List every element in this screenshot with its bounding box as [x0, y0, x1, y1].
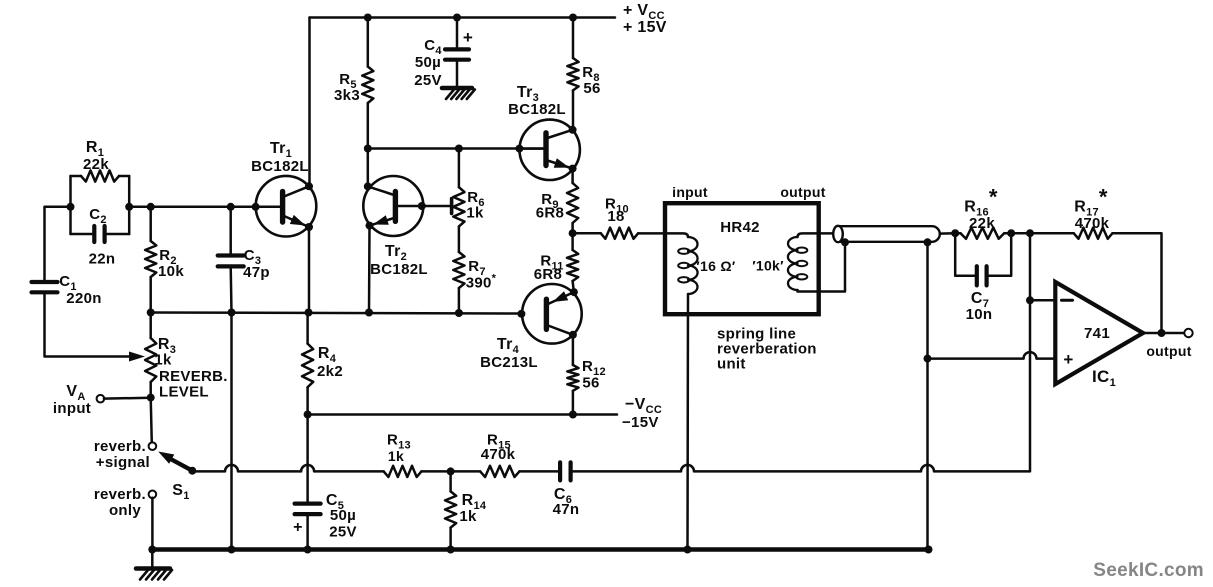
resistor R9	[567, 183, 578, 223]
svg-text:1k: 1k	[154, 352, 172, 369]
label Tr4	[497, 336, 520, 356]
resistor R5	[362, 67, 373, 104]
label R6 value	[466, 205, 484, 222]
wire R3 down to switch	[151, 398, 152, 444]
wire R17 to output node	[1113, 233, 1162, 333]
wire C2 bottom-right	[105, 233, 130, 236]
node rail S1	[148, 546, 156, 554]
capacitor C4	[445, 49, 469, 59]
resistor R12	[567, 365, 578, 391]
node baseline-R5	[364, 145, 372, 153]
resistor R10	[601, 228, 639, 239]
wire reverb only down	[151, 498, 154, 550]
label IC1 plus	[1063, 350, 1073, 369]
label R16 value	[969, 215, 995, 232]
label unit fn1	[717, 326, 796, 343]
label R10	[605, 196, 629, 216]
label R7 value	[466, 273, 497, 292]
svg-text:only: only	[109, 502, 141, 519]
label R12 value	[582, 375, 599, 392]
capacitor C7	[977, 266, 987, 285]
node Tr3 emitter	[569, 165, 577, 173]
svg-text:BC182L: BC182L	[508, 101, 566, 118]
wire rail to R8	[572, 18, 575, 59]
wire R1C2 left side	[69, 176, 72, 234]
node Tr2 collector	[364, 182, 372, 190]
svg-text:56: 56	[583, 80, 600, 97]
label R3	[158, 336, 176, 356]
wire ground rail	[152, 547, 928, 552]
label R10 value	[607, 208, 624, 225]
svg-text:25V: 25V	[414, 72, 442, 89]
resistor R3 potentiometer	[145, 338, 156, 382]
wire R2 to bottom line	[149, 277, 152, 313]
label -Vcc	[625, 396, 662, 416]
node signal-R2	[147, 203, 155, 211]
svg-text:output: output	[780, 184, 825, 200]
wire output coil bottom	[798, 242, 846, 292]
node rail unit	[684, 546, 692, 554]
inductor output coil	[788, 237, 807, 290]
svg-text:25V: 25V	[329, 524, 357, 541]
label Tr1	[270, 140, 292, 160]
label IC1 741	[1084, 325, 1110, 342]
resistor R1	[81, 170, 119, 181]
node R1 left	[67, 203, 75, 211]
wire minus column	[1029, 233, 1032, 471]
node S1 pivot	[188, 467, 196, 475]
label R6	[467, 189, 485, 209]
svg-text:+: +	[463, 28, 473, 47]
svg-text:50µ: 50µ	[415, 54, 441, 71]
label R2 value	[158, 263, 184, 280]
label R9	[541, 191, 559, 211]
label reverb+signal 1	[94, 438, 146, 455]
label C2 value	[89, 251, 116, 268]
label unit fn2	[717, 341, 817, 358]
resistor R6	[453, 187, 464, 226]
wire R5 to base line	[367, 103, 370, 149]
cable body	[838, 226, 940, 242]
label -15V	[622, 414, 659, 431]
label C4 plus	[463, 28, 473, 47]
label R7	[468, 258, 486, 278]
capacitor C1	[32, 282, 58, 292]
label unit input	[672, 184, 708, 200]
wire VA lead	[104, 397, 151, 400]
node baseline-Tr3	[515, 145, 523, 153]
label 10k	[752, 258, 784, 274]
label C3	[244, 247, 262, 267]
resistor R14	[445, 491, 456, 527]
label R1	[86, 139, 104, 159]
label R15 value	[481, 446, 516, 463]
wire Tr2 emitter down	[368, 226, 371, 313]
svg-text:reverb.: reverb.	[94, 438, 146, 455]
wire rail to C4	[456, 18, 459, 50]
label C7	[971, 290, 989, 310]
label R14 value	[459, 508, 477, 525]
wire Tr3 emitter lead	[548, 161, 573, 169]
wire R1 top-right	[119, 175, 129, 178]
label HR42	[720, 219, 760, 236]
capacitor C6	[560, 462, 571, 480]
label R3 value	[154, 352, 172, 369]
label C6	[554, 486, 572, 506]
svg-text:470k: 470k	[481, 446, 516, 463]
svg-text:220n: 220n	[66, 290, 101, 307]
resistor R16	[961, 228, 1005, 239]
transistor Tr1 base bar	[280, 191, 285, 222]
label +Vcc	[623, 2, 665, 22]
wire Tr1 emitter lead	[284, 216, 309, 227]
wire node to R11	[571, 233, 574, 250]
svg-text:+: +	[293, 519, 303, 536]
node R14 top	[447, 467, 455, 475]
label R1 value	[83, 156, 109, 173]
wire S1 to R13	[192, 465, 383, 471]
label Tr1 type	[251, 158, 309, 175]
label Tr2 type	[370, 261, 428, 278]
box HR42 unit	[665, 203, 819, 314]
transistor Tr1 circle	[256, 176, 317, 237]
wire Tr2 base lead	[395, 205, 451, 208]
label R5	[339, 71, 357, 91]
wire R1 top-left	[71, 175, 82, 178]
wire R16 to R17	[1011, 232, 1073, 235]
wire -Vcc line	[308, 413, 617, 416]
wire R12 to -Vcc	[572, 391, 575, 415]
wire Tr1 collector lead	[284, 186, 309, 196]
svg-text:6R8: 6R8	[536, 205, 564, 222]
wire R3 to VA node	[149, 382, 152, 398]
node rail-R5	[364, 14, 372, 22]
wire rail to R5	[367, 18, 370, 67]
label R16	[964, 185, 998, 219]
label C5 value2	[329, 524, 357, 541]
wire plus input lead	[928, 352, 1056, 358]
wire C1 to arrow	[45, 292, 132, 356]
svg-text:47n: 47n	[553, 501, 580, 518]
label reverb only 2	[109, 502, 141, 519]
node bottom-R7	[455, 309, 463, 317]
node VA junction	[147, 394, 155, 402]
resistor R4	[302, 344, 313, 388]
node R16 left	[951, 229, 959, 237]
label VA	[66, 383, 85, 403]
label R4	[318, 345, 337, 365]
resistor R17	[1074, 228, 1113, 239]
wire C1 riser	[45, 207, 71, 282]
wire R7 to bottom line	[458, 288, 461, 313]
node bottom-Tr2e	[365, 309, 373, 317]
node Tr1 collector	[305, 182, 313, 190]
label C6 value	[553, 501, 580, 518]
label R11	[540, 253, 563, 273]
node rail-R8	[569, 14, 577, 22]
wire shield down	[926, 242, 929, 550]
wire Tr4 collector to R12	[572, 335, 575, 365]
svg-text:741: 741	[1084, 325, 1110, 342]
svg-text:BC182L: BC182L	[370, 261, 428, 278]
svg-text:unit: unit	[717, 356, 746, 373]
svg-text:2k2: 2k2	[317, 363, 343, 380]
node shield tap	[841, 238, 849, 246]
op-amp IC1	[1055, 282, 1143, 384]
wire C4 to ground	[456, 60, 459, 87]
wire C5 to rail	[306, 514, 309, 549]
node rail C5	[304, 546, 312, 554]
wire input coil top	[665, 233, 688, 237]
inductor input coil	[678, 237, 697, 294]
node minus column top	[1026, 229, 1034, 237]
wire baseline to R6	[458, 149, 461, 188]
label R3 fn2	[159, 384, 209, 401]
node bottom-R2R3	[147, 309, 155, 317]
label R11 value	[534, 266, 562, 283]
wire Tr1 collector to +Vcc	[308, 18, 311, 187]
wire Tr1 base lead	[256, 206, 283, 209]
wire bottom line	[151, 313, 522, 314]
label C3 value	[243, 264, 270, 281]
label R8	[582, 64, 600, 84]
wire R14 top	[449, 471, 452, 491]
tick Tr2 base end	[450, 199, 454, 214]
label C7 value	[966, 306, 993, 323]
svg-text:3k3: 3k3	[334, 87, 360, 104]
ground bottom-left	[136, 569, 172, 580]
label R8 value	[583, 80, 600, 97]
wire R4 to -Vcc node	[306, 387, 309, 503]
node rail C3	[228, 546, 236, 554]
wire Tr2 collector up	[367, 149, 370, 187]
label C2	[89, 206, 107, 226]
label 16 ohm	[696, 258, 736, 274]
transistor Tr3 base bar	[543, 133, 548, 166]
terminal output	[1184, 329, 1192, 337]
transistor Tr2 circle	[363, 176, 423, 236]
wire minus input lead	[1030, 299, 1055, 302]
resistor R2	[145, 241, 156, 277]
wire Tr4 collector lead	[548, 326, 573, 335]
label C1 value	[66, 290, 101, 307]
node Tr3 collector	[569, 126, 577, 134]
arrow Tr1 emitter	[290, 215, 306, 226]
svg-text:10k: 10k	[158, 263, 184, 280]
node shield drop	[924, 238, 932, 246]
label R4 value	[317, 363, 343, 380]
wire Tr2 emitter lead	[370, 218, 395, 226]
svg-text:HR42: HR42	[720, 219, 760, 236]
node bottom-Tr1e	[305, 309, 313, 317]
label output	[1146, 343, 1191, 359]
wire C2 bottom-left	[71, 233, 95, 236]
wire Tr3 collector lead	[548, 130, 573, 138]
svg-text:1k: 1k	[388, 448, 404, 464]
wire Tr2 collector lead	[368, 186, 394, 195]
svg-text:input: input	[53, 400, 91, 417]
wire Tr1 emitter down	[308, 227, 311, 313]
svg-text:47p: 47p	[243, 264, 270, 281]
capacitor C3	[218, 256, 244, 267]
wire R13 to R14 node	[421, 470, 480, 473]
label R17	[1074, 185, 1108, 219]
svg-text:+signal: +signal	[96, 454, 150, 471]
wire Tr4 emitter lead	[548, 292, 574, 304]
svg-text:22k: 22k	[83, 156, 109, 173]
wire R10 to unit	[638, 232, 665, 235]
label R9 value	[536, 205, 564, 222]
svg-text:LEVEL: LEVEL	[159, 384, 209, 401]
node rail-C4	[453, 14, 461, 22]
node Tr2 base-circle	[418, 202, 426, 210]
label C4 value2	[414, 72, 442, 89]
svg-text:56: 56	[582, 375, 599, 392]
arrow Tr3 emitter	[554, 158, 570, 168]
resistor R11	[567, 250, 578, 281]
resistor R13	[384, 466, 422, 477]
svg-text:input: input	[672, 184, 708, 200]
label C1	[59, 273, 77, 293]
wire R16 lead left	[955, 232, 960, 235]
label C5 value1	[330, 507, 356, 524]
wire C7 branch	[955, 233, 1011, 276]
switch S1 arm	[166, 457, 192, 471]
label R13	[387, 432, 411, 452]
node Tr4 collector	[569, 331, 577, 339]
node baseline-R6	[455, 145, 463, 153]
wire bottom to R4	[306, 313, 309, 344]
label C4 value1	[415, 54, 441, 71]
svg-text:22n: 22n	[89, 251, 116, 268]
wire bottom to R3	[149, 313, 152, 339]
svg-text:10n: 10n	[966, 306, 993, 323]
wire R6 to R7	[458, 226, 461, 252]
label Tr2	[385, 243, 407, 263]
arrow R3 wiper	[129, 352, 145, 362]
terminal reverb+signal	[149, 442, 157, 450]
transistor Tr2 base bar	[393, 192, 398, 222]
resistor R8	[567, 58, 578, 90]
wire R8 to Tr3 collector	[572, 90, 575, 130]
wire C6 to opamp column	[571, 465, 1030, 471]
node Tr4 base-circle	[517, 310, 525, 318]
wire signal to R2	[149, 207, 152, 241]
label unit output	[780, 184, 825, 200]
wire C3 down	[229, 266, 232, 312]
wire node to R10	[573, 232, 601, 235]
svg-text:470k: 470k	[1075, 215, 1110, 232]
wire Tr3 emitter to R9	[571, 169, 574, 183]
wire R14 bottom	[449, 528, 452, 550]
label R14	[462, 492, 487, 512]
svg-text:REVERB.: REVERB.	[159, 368, 228, 385]
resistor R7	[453, 252, 464, 288]
watermark SeekIC	[1093, 560, 1204, 581]
wire cable core out	[940, 232, 955, 235]
svg-text:+: +	[1063, 350, 1073, 369]
terminal VA input	[97, 395, 105, 403]
label R17 value	[1075, 215, 1110, 232]
label unit fn3	[717, 356, 746, 373]
node Tr1 emitter	[305, 223, 313, 231]
svg-text:BC213L: BC213L	[480, 354, 538, 371]
label VA input	[53, 400, 91, 417]
ground under C4	[442, 88, 475, 99]
capacitor C5	[295, 504, 321, 514]
transistor Tr3 circle	[520, 120, 580, 180]
arrow Tr4 emitter	[553, 291, 569, 302]
svg-text:−15V: −15V	[622, 414, 659, 431]
svg-text:18: 18	[607, 208, 624, 225]
label C5	[326, 492, 344, 512]
node rail R14	[447, 546, 455, 554]
wire signal to C3	[229, 207, 232, 256]
svg-text:1k: 1k	[459, 508, 477, 525]
wire R11 to Tr4 emitter	[573, 281, 574, 292]
wire opamp output	[1143, 332, 1184, 335]
node Tr4 emitter	[570, 288, 578, 296]
wire base line Tr2/Tr3	[368, 147, 543, 150]
node minus input	[1026, 296, 1034, 304]
node R1 right	[125, 203, 133, 211]
wire input coil down to rail	[686, 294, 689, 550]
wire R15 to C6	[519, 470, 560, 473]
label C4	[424, 37, 442, 57]
wire Tr3 base lead	[519, 147, 546, 150]
wire +Vcc top rail	[310, 16, 616, 19]
svg-text:reverb.: reverb.	[94, 486, 146, 503]
node -Vcc R4	[304, 411, 312, 419]
svg-text:1k: 1k	[466, 205, 484, 222]
label Tr4 type	[480, 354, 538, 371]
capacitor C2	[94, 226, 104, 242]
terminal reverb only	[149, 491, 157, 499]
svg-text:6R8: 6R8	[534, 266, 562, 283]
node bottom-C3	[228, 309, 236, 317]
svg-text:22k: 22k	[969, 215, 995, 232]
svg-text:SeekIC.com: SeekIC.com	[1093, 560, 1204, 581]
label Tr3 type	[508, 101, 566, 118]
label S1	[172, 482, 189, 502]
resistor R15	[480, 466, 519, 477]
node Tr2 emitter	[366, 222, 374, 230]
label +15V	[623, 19, 667, 36]
label R12	[582, 358, 606, 378]
node output junction	[1158, 329, 1166, 337]
wire R16 lead right	[1004, 232, 1011, 235]
label Tr3	[517, 84, 539, 104]
node R9-R11-R10	[569, 229, 577, 237]
transistor Tr4 base bar	[544, 299, 549, 329]
arrow Tr2 emitter	[373, 215, 389, 225]
label reverb only 1	[94, 486, 146, 503]
label C5 plus	[293, 519, 303, 536]
node signal-C3	[227, 203, 235, 211]
node rail shield	[925, 546, 933, 554]
node Tr1 base	[252, 203, 260, 211]
svg-text:BC182L: BC182L	[251, 158, 309, 175]
label IC1	[1092, 367, 1116, 389]
node -Vcc R12	[569, 411, 577, 419]
label R2	[159, 247, 177, 267]
wire C3 node to ground rail	[230, 313, 233, 550]
label R13 value	[388, 448, 404, 464]
arrow S1 arm	[158, 452, 174, 464]
svg-text:′16 Ω′: ′16 Ω′	[696, 258, 736, 274]
wire output coil top	[798, 233, 835, 237]
svg-text:+ 15V: + 15V	[623, 19, 667, 36]
